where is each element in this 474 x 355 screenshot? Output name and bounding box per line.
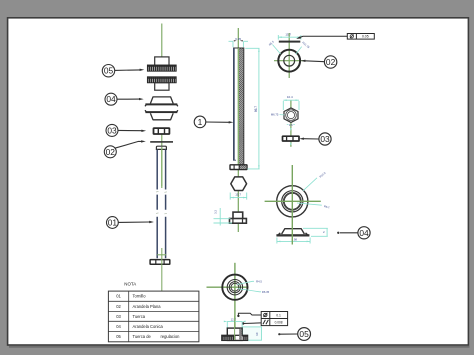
side view centerline: [234, 316, 236, 340]
svg-text:Arandela Conica: Arandela Conica: [133, 324, 164, 329]
bolt head front view base: [230, 219, 247, 224]
centerline bolt detail: [237, 28, 239, 232]
svg-text:04: 04: [106, 94, 116, 104]
part 04 side view dome: [282, 229, 305, 234]
GDT frame top right: [347, 34, 374, 40]
balloon 1: [194, 116, 206, 128]
runout symbol: [264, 313, 267, 316]
bolt head hexagon: [231, 177, 247, 191]
dim 3.2 lines: [214, 208, 233, 226]
svg-text:regulacion: regulacion: [161, 334, 181, 339]
part 04 conical washer lower flange: [145, 111, 177, 113]
leader balloon 05: [114, 69, 140, 72]
sheet-shadow bottom: [9, 346, 470, 348]
leader balloon 1: [205, 121, 229, 123]
part 05 side view flange: [222, 335, 248, 340]
balloon 02: [104, 146, 116, 158]
svg-text:02: 02: [106, 147, 116, 157]
leader balloon 03: [118, 129, 142, 131]
leader balloon 04: [117, 98, 140, 100]
centerline 05 detail vertical: [234, 263, 236, 340]
svg-text:10.4: 10.4: [287, 95, 293, 99]
GDT frame stack: [261, 312, 287, 326]
part 01 shaft break marks: [156, 191, 167, 214]
radius leader R5.5: [272, 45, 280, 55]
part 04 side view flange: [276, 234, 309, 236]
centerline 03 vertical: [290, 100, 292, 147]
rod centerline green: [237, 48, 239, 164]
svg-text:15.7: 15.7: [235, 192, 241, 196]
radius leader R10.5: [303, 178, 317, 191]
part 03 nut hexagon: [284, 108, 298, 123]
centerline exploded view lower: [161, 248, 163, 294]
part 02 washer circles: [278, 50, 300, 72]
part 03 nut side view: [154, 128, 170, 134]
svg-text:Tuerca de: Tuerca de: [133, 334, 152, 339]
svg-text:Tuerca: Tuerca: [133, 314, 146, 319]
centerline 05 detail horizontal: [207, 286, 249, 288]
part 04 conical washer lower dome: [150, 113, 173, 120]
svg-text:05: 05: [104, 66, 114, 76]
leader balloon 04 right: [340, 232, 358, 234]
leader to runout frame: [238, 313, 261, 316]
svg-text:03: 03: [107, 125, 117, 135]
svg-text:M6.75: M6.75: [271, 112, 279, 116]
parallelism symbol: [263, 320, 269, 325]
balloon 03: [106, 124, 118, 136]
svg-text:3.2: 3.2: [213, 210, 217, 214]
svg-text:04: 04: [116, 324, 121, 329]
radius leader R11.78: [296, 47, 302, 55]
part 05 bottom boss: [155, 83, 169, 90]
leader balloon 01: [118, 221, 150, 223]
part 02 washer side bar: [279, 41, 301, 43]
part 05 circle 2: [227, 280, 242, 295]
balloon 05 right: [298, 328, 311, 341]
radius leader R4.5: [237, 281, 254, 284]
table frame: [108, 291, 198, 342]
dim 6.35 arrows: [234, 40, 243, 41]
centerline 02 vertical: [288, 33, 290, 78]
leader balloon 03 right: [303, 138, 319, 140]
dim 86.7 vertical: [245, 48, 259, 169]
balloon 05: [102, 65, 114, 77]
part 05 knurled ring lower: [147, 77, 176, 83]
side view knurl fills: [222, 336, 235, 340]
centerline 04 horizontal: [265, 200, 321, 202]
centerline exploded view middle: [161, 134, 163, 188]
svg-text:0.008: 0.008: [275, 321, 283, 325]
balloon 04: [105, 93, 117, 105]
svg-text:NOTA: NOTA: [124, 281, 136, 286]
rod left wall navy: [233, 48, 235, 160]
svg-text:15.7: 15.7: [285, 32, 291, 36]
svg-text:05: 05: [116, 334, 121, 339]
balloon 01: [107, 217, 119, 229]
svg-text:Tornillo: Tornillo: [133, 294, 147, 299]
leader to parallelism frame: [243, 322, 261, 325]
part 01 bolt shaft left wall: [156, 149, 158, 258]
svg-text:02: 02: [326, 57, 336, 67]
leader balloon 05 right: [279, 333, 297, 335]
svg-text:0.1: 0.1: [276, 313, 281, 317]
part 01 bolt shaft inner centerline: [161, 147, 163, 186]
part 05 side view body: [227, 328, 242, 340]
part 02 flat washer side view: [150, 141, 173, 143]
part 01 thread runout line: [157, 254, 166, 256]
balloon 02 right: [324, 56, 336, 68]
centerline 02 horizontal: [274, 60, 305, 62]
leader balloon 02: [115, 141, 142, 148]
balloon 04 right: [358, 227, 370, 239]
rod bottom flange: [230, 165, 247, 170]
svg-text:1: 1: [198, 117, 203, 127]
part 04 circles: [277, 186, 308, 217]
table row 01: [116, 294, 180, 339]
svg-text:Arandela Plana: Arandela Plana: [133, 304, 162, 309]
part 05 knurled ring upper: [147, 65, 176, 71]
part 05 top boss: [155, 57, 169, 66]
leader GDT top right: [299, 36, 347, 38]
part 01 bolt shaft right wall: [165, 149, 167, 258]
svg-text:04: 04: [359, 228, 369, 238]
part 03 nut side view: [283, 136, 300, 141]
part 01 bolt head flange: [150, 260, 170, 265]
part 05 circle 3: [229, 282, 240, 293]
svg-text:0.05: 0.05: [362, 35, 369, 39]
svg-text:01: 01: [116, 294, 121, 299]
svg-text:86.7: 86.7: [254, 106, 258, 112]
cyan dim box right of side view: [243, 327, 262, 340]
bolt head front view boss: [233, 212, 243, 219]
radius leader R6.2: [297, 203, 322, 205]
dim 6.35 lines: [229, 41, 249, 47]
part 05 circle 4: [231, 283, 239, 291]
svg-text:02: 02: [116, 304, 121, 309]
dim 15.7 lines: [230, 193, 247, 200]
svg-text:01: 01: [108, 218, 118, 228]
centerline exploded view upper: [161, 24, 163, 65]
leader balloon 02 right: [305, 60, 325, 63]
balloon 03 right: [319, 133, 331, 145]
svg-text:6.35: 6.35: [235, 37, 241, 41]
rod hatched section: [239, 48, 244, 165]
part 01 bolt shaft top cap: [156, 146, 166, 149]
svg-text:10: 10: [255, 332, 259, 336]
part 05 outer circle: [222, 275, 247, 300]
svg-text:05: 05: [299, 329, 309, 339]
part 04 conical washer upper dome: [150, 97, 173, 104]
rod outline: [234, 48, 244, 165]
part 04 conical washer upper flange: [145, 103, 177, 105]
centerline 04 vertical: [291, 165, 293, 245]
svg-text:03: 03: [320, 134, 330, 144]
svg-text:03: 03: [116, 314, 121, 319]
svg-text:R6.35: R6.35: [262, 290, 270, 294]
svg-text:R4.5: R4.5: [256, 279, 262, 283]
svg-text:3.6: 3.6: [289, 123, 293, 127]
base dividers: [233, 219, 243, 224]
part 03 nut circles: [286, 110, 297, 121]
radius leader R6.35: [238, 289, 261, 292]
